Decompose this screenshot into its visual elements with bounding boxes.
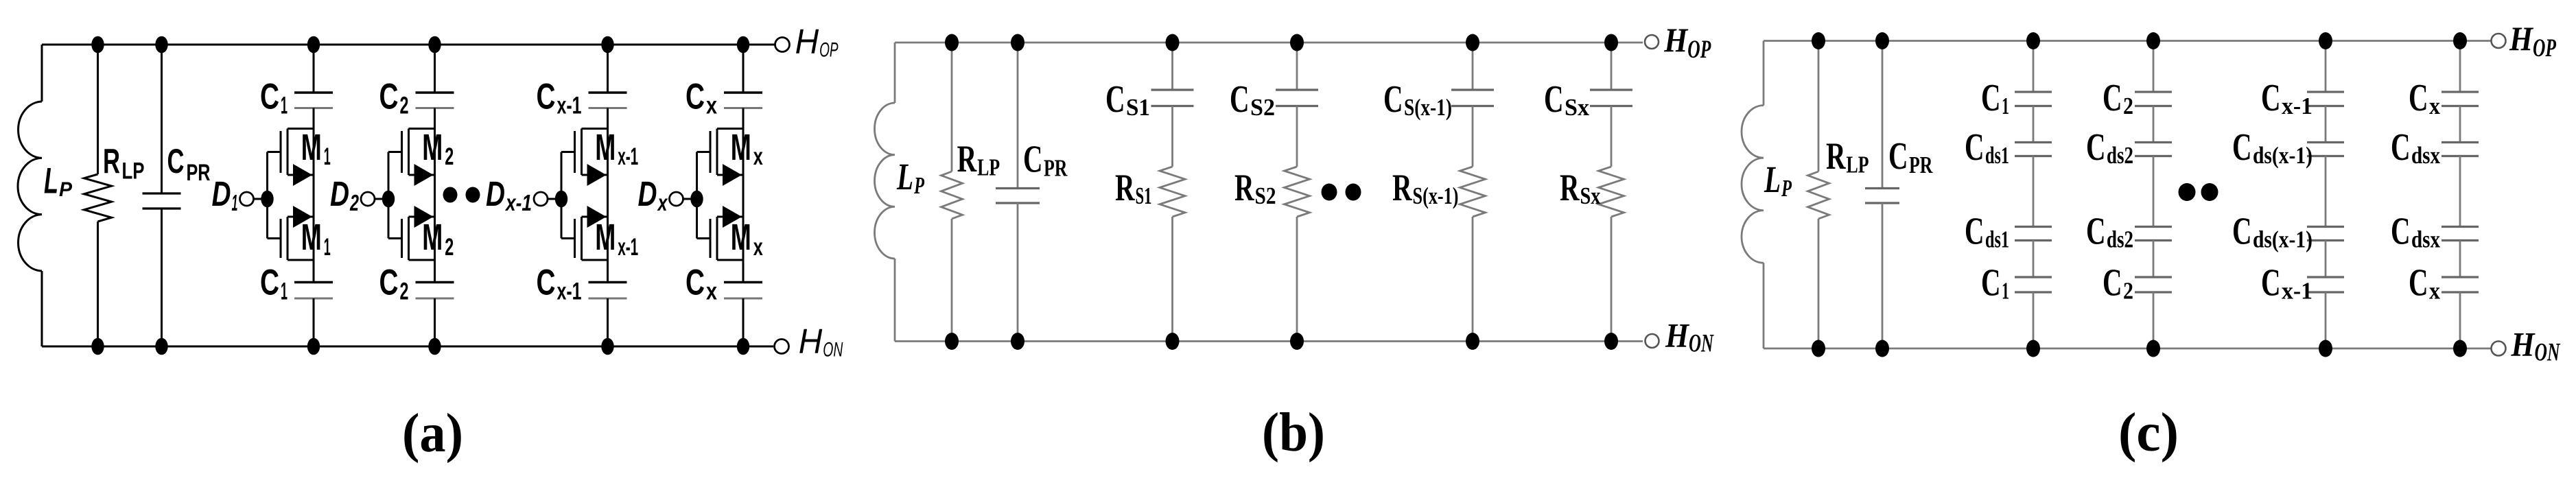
svg-text:M: M [731,217,751,258]
svg-text:x: x [753,143,763,170]
svg-text:C: C [1230,78,1250,121]
svg-text:S(x-1): S(x-1) [1413,182,1459,209]
svg-text:C: C [2232,126,2252,169]
svg-text:x-1: x-1 [618,143,638,170]
svg-text:1: 1 [2002,93,2009,119]
svg-text:LP: LP [977,154,1000,181]
svg-text:R: R [1560,167,1580,209]
svg-text:C: C [2232,211,2252,253]
svg-text:C: C [2261,262,2281,305]
svg-text:1: 1 [281,93,288,119]
svg-text:ds1: ds1 [1985,226,2009,253]
svg-text:C: C [2261,77,2281,119]
svg-text:ds(x-1): ds(x-1) [2253,142,2312,169]
svg-text:(b): (b) [1262,403,1325,463]
svg-text:C: C [1023,139,1043,181]
svg-text:PR: PR [1044,155,1068,182]
svg-text:H: H [2511,325,2536,364]
svg-text:C: C [1981,262,2001,305]
svg-text:S2: S2 [1250,94,1275,121]
svg-text:M: M [301,127,322,168]
svg-text:D: D [330,174,349,213]
svg-text:R: R [103,142,120,181]
svg-text:C: C [2409,262,2428,305]
svg-text:2: 2 [445,234,454,261]
svg-text:C: C [1105,78,1125,121]
svg-text:D: D [486,174,505,213]
svg-text:C: C [2391,211,2411,253]
svg-text:2: 2 [349,190,359,215]
svg-text:C: C [260,263,279,303]
svg-text:R: R [1392,167,1412,209]
svg-text:2: 2 [2123,93,2133,119]
svg-text:R: R [1115,167,1135,209]
svg-text:x-1: x-1 [557,278,582,305]
svg-text:x-1: x-1 [2282,278,2312,305]
svg-text:2: 2 [400,93,409,119]
svg-text:H: H [1665,316,1690,355]
svg-text:1: 1 [324,234,331,261]
svg-text:1: 1 [324,143,331,170]
svg-text:(c): (c) [2118,403,2179,463]
svg-text:C: C [537,77,556,117]
svg-text:R: R [1234,167,1254,209]
svg-text:S(x-1): S(x-1) [1404,94,1452,121]
svg-text:M: M [731,127,751,168]
svg-text:ds2: ds2 [2107,226,2133,253]
svg-text:Sx: Sx [1565,94,1589,121]
svg-text:C: C [2086,211,2106,253]
svg-text:OP: OP [1687,36,1711,64]
svg-text:dsx: dsx [2411,226,2440,253]
svg-text:D: D [638,174,657,213]
svg-text:2: 2 [2123,278,2133,305]
svg-text:x-1: x-1 [2282,93,2312,119]
svg-text:C: C [1544,78,1564,121]
svg-text:C: C [379,77,399,117]
svg-text:ON: ON [823,339,843,361]
svg-text:x: x [657,190,668,215]
svg-text:x: x [2429,93,2440,119]
svg-text:2: 2 [445,143,454,170]
svg-text:C: C [167,142,185,180]
svg-text:C: C [2103,77,2122,119]
svg-text:C: C [686,263,705,303]
svg-text:R: R [1826,135,1846,178]
svg-text:H: H [795,22,819,61]
svg-text:dsx: dsx [2411,142,2440,169]
svg-text:(a): (a) [402,403,463,464]
svg-text:M: M [595,217,616,258]
svg-text:OP: OP [2533,34,2556,62]
svg-text:L: L [44,161,58,202]
svg-text:P: P [1781,175,1792,202]
svg-text:C: C [2086,126,2106,169]
svg-text:LP: LP [122,158,145,185]
svg-text:Sx: Sx [1580,182,1601,209]
svg-text:ds1: ds1 [1985,142,2009,169]
svg-text:1: 1 [2002,278,2009,305]
svg-text:ds(x-1): ds(x-1) [2253,226,2312,253]
svg-text:C: C [1981,77,2001,119]
svg-text:ds2: ds2 [2107,142,2133,169]
svg-text:ON: ON [1689,330,1714,358]
svg-text:C: C [379,263,399,303]
svg-text:OP: OP [819,39,839,62]
svg-text:P: P [59,178,73,201]
svg-text:x: x [706,278,717,305]
svg-text:C: C [2409,77,2428,119]
svg-text:C: C [686,77,705,117]
svg-text:x: x [2429,278,2440,305]
svg-text:D: D [212,174,231,213]
svg-text:M: M [301,217,322,258]
svg-text:x: x [753,234,763,261]
svg-text:C: C [537,263,556,303]
svg-text:C: C [1965,211,1984,253]
svg-text:x: x [706,93,717,119]
svg-text:H: H [799,322,823,361]
svg-text:P: P [913,172,924,199]
svg-text:PR: PR [1909,152,1933,178]
svg-text:C: C [1888,135,1908,178]
svg-text:2: 2 [400,278,409,305]
svg-text:x-1: x-1 [557,93,582,119]
svg-text:C: C [1383,78,1403,121]
svg-text:M: M [422,217,443,258]
svg-text:H: H [1663,21,1689,59]
svg-text:S2: S2 [1255,182,1276,209]
svg-text:LP: LP [1847,152,1869,178]
svg-text:R: R [957,138,977,180]
svg-text:x-1: x-1 [618,234,638,261]
svg-text:C: C [2103,262,2122,305]
svg-text:L: L [1764,158,1781,200]
svg-text:1: 1 [281,278,288,305]
svg-text:1: 1 [232,190,238,215]
svg-text:PR: PR [187,160,211,186]
svg-text:x-1: x-1 [504,190,532,215]
svg-text:S1: S1 [1136,182,1152,209]
svg-text:S1: S1 [1126,94,1150,121]
svg-text:M: M [595,127,616,168]
svg-text:L: L [896,156,913,198]
svg-text:M: M [422,127,443,168]
svg-text:H: H [2509,19,2534,58]
svg-text:C: C [260,77,279,117]
svg-text:ON: ON [2535,339,2561,367]
svg-text:C: C [2391,126,2411,169]
svg-text:C: C [1965,126,1984,169]
